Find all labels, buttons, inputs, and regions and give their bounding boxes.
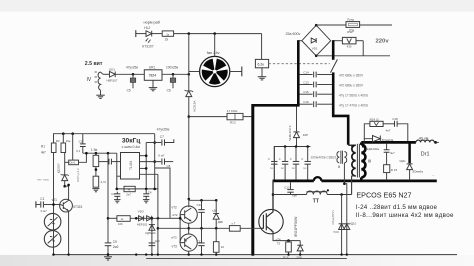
node <box>272 193 275 196</box>
svg-text:Д9Б: Д9Б <box>218 220 223 224</box>
wire <box>261 68 263 77</box>
transformer T1 core <box>356 144 358 178</box>
wire <box>157 174 159 254</box>
wire VT1 collector <box>68 186 70 200</box>
svg-text:IV: IV <box>87 77 92 83</box>
svg-text:С16: С16 <box>303 100 309 104</box>
node <box>132 73 135 76</box>
regulator UR1 7824 <box>144 70 162 81</box>
svg-text:2.5 вит: 2.5 вит <box>85 61 103 67</box>
node <box>107 217 110 220</box>
svg-text:SEML30H 4г: SEML30H 4г <box>288 125 292 141</box>
wire vertical rail <box>188 34 190 91</box>
svg-text:УС9: УС9 <box>333 230 339 234</box>
svg-text:4н7: 4н7 <box>390 151 395 155</box>
sensor B2 <box>44 231 61 248</box>
svg-text:100м400в С8В21: 100м400в С8В21 <box>311 156 337 160</box>
wire collector leg <box>272 181 274 210</box>
svg-text:+Д4: +Д4 <box>212 208 218 212</box>
svg-text:4,7к: 4,7к <box>101 180 107 184</box>
node B <box>213 32 216 35</box>
wire <box>65 161 69 163</box>
capacitor С16 <box>313 101 315 107</box>
wire <box>188 117 190 199</box>
wire control rail <box>54 134 155 143</box>
svg-text:UD1: UD1 <box>109 68 115 72</box>
resistor R17 <box>229 226 240 232</box>
svg-text:R 15: R 15 <box>391 168 398 172</box>
diode VD7 <box>215 200 217 213</box>
node A <box>188 32 191 35</box>
svg-text:2м2: 2м2 <box>113 245 119 249</box>
wire <box>383 123 394 125</box>
svg-text:С11: С11 <box>197 240 203 244</box>
node <box>157 217 160 220</box>
wire <box>317 84 332 86</box>
diode VD9 <box>339 224 345 230</box>
wire <box>240 227 260 229</box>
node sec dot <box>362 145 364 147</box>
terminal X1 <box>135 30 137 37</box>
svg-text:С3: С3 <box>111 192 115 196</box>
wire <box>273 194 307 196</box>
node <box>62 132 65 135</box>
wire <box>386 152 388 164</box>
node <box>188 253 190 255</box>
wire <box>103 73 110 75</box>
wire <box>317 93 332 95</box>
svg-text:IRG4PF50W: IRG4PF50W <box>294 216 298 237</box>
wire VT1 emitter <box>68 211 70 255</box>
wire <box>317 74 332 76</box>
node <box>340 193 343 196</box>
ground <box>143 199 150 201</box>
wire <box>261 34 263 60</box>
bus output minus <box>273 180 314 183</box>
wire <box>356 40 363 42</box>
svg-text:25a 600v: 25a 600v <box>286 32 301 36</box>
wire base link <box>179 215 181 243</box>
wire emitter <box>273 234 300 241</box>
node <box>215 253 217 255</box>
wire <box>79 153 87 162</box>
wire <box>327 194 351 196</box>
capacitor С13 <box>313 82 315 88</box>
diode VD3b <box>147 216 152 221</box>
svg-text:10е: 10е <box>66 139 71 143</box>
sensor B1 <box>44 213 61 230</box>
svg-text:Обед ВРУч: Обед ВРУч <box>331 209 335 224</box>
wire <box>151 218 153 254</box>
transformer T1 secondary <box>361 145 365 178</box>
svg-text:С: С <box>301 157 303 161</box>
winding IV <box>98 72 100 90</box>
IC pin stub <box>140 167 147 169</box>
svg-text:HL2: HL2 <box>144 26 150 30</box>
capacitor C4 <box>145 189 147 194</box>
IC pin stub <box>140 173 158 175</box>
node C <box>188 73 191 76</box>
node <box>71 132 74 135</box>
node <box>67 184 70 187</box>
svg-text:норм раб: норм раб <box>144 20 161 24</box>
wire <box>115 73 144 75</box>
svg-text:100: 100 <box>118 222 123 226</box>
node <box>295 145 298 148</box>
node prim dot <box>351 145 353 147</box>
transistor VT3 <box>180 234 197 251</box>
terminal <box>241 67 243 77</box>
svg-text:R1: R1 <box>41 145 45 149</box>
svg-text:нет тока: нет тока <box>37 178 49 182</box>
wire <box>188 97 190 117</box>
IC pin stub <box>140 155 147 157</box>
svg-text:47у 17 560U x 400U: 47у 17 560U x 400U <box>339 93 369 97</box>
wire <box>108 217 117 219</box>
svg-text:С15: С15 <box>303 90 309 94</box>
node <box>107 152 110 155</box>
wire sec bottom <box>360 177 363 181</box>
svg-text:С5: С5 <box>127 89 131 93</box>
svg-text:4к7: 4к7 <box>41 150 46 154</box>
svg-text:fan 24v: fan 24v <box>207 50 220 55</box>
resistor R14 <box>370 121 383 126</box>
svg-text:УД8: УД8 <box>296 256 302 260</box>
bus thick horiz <box>252 104 300 107</box>
resistor R5 <box>124 186 135 191</box>
svg-text:vТ3: vТ3 <box>172 245 178 249</box>
capacitor C6 <box>172 74 174 78</box>
fan M1 <box>200 56 230 86</box>
svg-text:КТ3107: КТ3107 <box>142 45 153 49</box>
wire <box>188 199 190 207</box>
wire AC line top <box>316 24 346 26</box>
svg-text:vТ1: vТ1 <box>52 198 58 202</box>
current transformer TT core <box>307 191 328 193</box>
svg-text:НЕR107: НЕR107 <box>107 79 118 83</box>
svg-text:II: II <box>338 164 340 169</box>
bus thick corner <box>333 116 348 145</box>
node <box>153 188 156 191</box>
transistor VT2 <box>180 206 197 223</box>
wire sec top <box>360 142 363 145</box>
svg-text:47у 17 470U x 400U: 47у 17 470U x 400U <box>339 103 369 107</box>
switch S1 blade <box>331 59 338 72</box>
svg-text:6.2к: 6.2к <box>258 63 265 67</box>
svg-text:0 м7: 0 м7 <box>158 154 165 158</box>
wire fan right <box>230 71 242 73</box>
node <box>145 154 148 157</box>
node <box>95 168 98 171</box>
node <box>145 167 148 170</box>
svg-text:1м: 1м <box>292 167 295 170</box>
wire bases <box>170 217 180 219</box>
wire y228 <box>158 227 230 229</box>
wire <box>351 176 353 194</box>
wire <box>146 142 161 144</box>
capacitor C3 <box>116 192 118 194</box>
wire <box>352 176 356 195</box>
node <box>145 253 147 255</box>
node <box>179 217 182 220</box>
wire <box>343 163 345 184</box>
svg-text:1м: 1м <box>281 167 284 170</box>
wire <box>152 80 154 87</box>
node <box>107 253 109 255</box>
wire AC line bottom <box>316 55 390 57</box>
resistor R4 <box>93 176 99 187</box>
svg-text:68н: 68н <box>292 193 297 197</box>
node <box>200 227 203 230</box>
node <box>107 253 110 256</box>
optocoupler U2 <box>69 160 79 165</box>
node <box>52 203 55 206</box>
svg-text:470 680u x 350V: 470 680u x 350V <box>339 84 364 88</box>
svg-text:НЕР102: НЕР102 <box>137 222 148 226</box>
capacitor C1 <box>35 201 37 207</box>
svg-text:430: 430 <box>347 45 352 49</box>
winding II left <box>337 152 339 163</box>
svg-text:470 680u x 350V: 470 680u x 350V <box>339 74 364 78</box>
node D <box>188 115 191 118</box>
zener VD KS515 <box>186 91 192 97</box>
svg-text:10: 10 <box>221 245 225 249</box>
bus bottom second <box>146 257 347 259</box>
wire <box>300 74 313 76</box>
svg-text:С12: С12 <box>284 186 290 190</box>
wire vert <box>116 153 118 189</box>
wire fan top <box>214 34 216 57</box>
wire y200 <box>189 199 216 201</box>
IC U1 TL494 <box>121 153 140 180</box>
node <box>172 73 175 76</box>
node F <box>343 182 346 185</box>
svg-text:вТ2: вТ2 <box>173 213 178 217</box>
capacitor C12 <box>290 182 292 189</box>
wire L bend <box>155 168 170 218</box>
wire <box>341 195 343 255</box>
capacitor C9 <box>105 242 112 244</box>
resistor R15 <box>384 165 390 173</box>
node <box>187 227 190 230</box>
diode VD10 <box>344 224 350 230</box>
resistor R3 <box>93 155 99 166</box>
capacitor С19 <box>284 147 286 162</box>
svg-text:С18: С18 <box>392 117 398 121</box>
node <box>157 227 160 230</box>
zener VD4 <box>62 175 68 181</box>
wire <box>140 161 162 163</box>
capacitor С21 <box>307 147 309 162</box>
svg-text:ТТ: ТТ <box>313 199 319 205</box>
svg-text:вТ3: вТ3 <box>172 235 177 239</box>
resistor R1 <box>51 143 56 153</box>
transistor VT4 IGBT <box>259 209 283 233</box>
capacitor C11 <box>201 228 203 243</box>
wire <box>274 147 310 180</box>
capacitor C20 <box>99 161 108 163</box>
svg-text:КС515А: КС515А <box>193 101 197 112</box>
capacitor C5 <box>132 74 134 78</box>
node <box>252 253 254 255</box>
wire <box>436 141 439 143</box>
bus thick right upper <box>332 40 335 60</box>
svg-text:УД11: УД11 <box>399 159 406 163</box>
svg-text:с шим 0.4м: с шим 0.4м <box>122 145 141 149</box>
ground <box>114 199 121 201</box>
wire <box>348 144 356 146</box>
wire <box>162 73 189 75</box>
node <box>215 199 218 202</box>
svg-text:7824: 7824 <box>149 74 157 78</box>
svg-text:R16: R16 <box>283 256 289 260</box>
node <box>287 253 289 255</box>
wire <box>344 184 346 255</box>
wire <box>300 93 313 95</box>
current transformer TT winding <box>307 191 328 194</box>
diode VD8 <box>299 241 301 245</box>
node bridge top <box>315 24 318 27</box>
node <box>151 217 154 220</box>
wire <box>152 33 162 35</box>
svg-text:С4: С4 <box>148 190 152 194</box>
winding IV ticks <box>95 72 97 82</box>
LED HL2 <box>146 31 152 37</box>
svg-text:КД2130а: КД2130а <box>367 147 379 151</box>
winding II right <box>344 152 346 163</box>
svg-text:к Т: к Т <box>232 221 236 225</box>
wire AC line top right <box>360 24 392 26</box>
wire <box>95 167 97 177</box>
capacitor С15 <box>313 91 315 97</box>
wire <box>243 116 252 118</box>
node <box>340 253 342 255</box>
inductor Dr1 <box>416 140 434 142</box>
svg-text:47ух25в: 47ух25в <box>126 66 138 70</box>
node <box>346 253 348 255</box>
node <box>153 141 156 144</box>
IC pin stub <box>117 175 121 177</box>
wire rail 15v <box>83 152 117 154</box>
node bridge bottom <box>315 55 318 58</box>
svg-text:С1: С1 <box>40 197 44 201</box>
wire <box>386 173 388 181</box>
bus thick right lower <box>332 72 335 117</box>
capacitor C17 <box>384 149 390 151</box>
capacitor C7 <box>161 139 163 145</box>
svg-text:47ух25м: 47ух25м <box>157 128 169 132</box>
svg-text:1м: 1м <box>303 167 306 170</box>
capacitor С20 <box>295 147 297 162</box>
wire <box>64 181 66 187</box>
bus bottom main <box>52 254 457 256</box>
svg-text:40 uH: 40 uH <box>419 137 429 141</box>
wire bridge left stub <box>297 40 302 42</box>
capacitor С18 <box>273 147 275 162</box>
bus freewheel drop <box>408 142 411 163</box>
diode UD1 <box>110 71 116 77</box>
node <box>63 185 66 188</box>
wire <box>296 107 298 132</box>
wire <box>130 217 170 219</box>
diode VD5 <box>294 132 300 138</box>
node <box>116 188 119 191</box>
wire <box>296 138 298 147</box>
wire <box>100 90 102 95</box>
transistor VT1 <box>60 199 73 212</box>
varistor R12 <box>342 37 356 44</box>
diode VD3 <box>139 216 144 221</box>
node <box>299 253 301 255</box>
bus sec thick top <box>361 141 416 144</box>
svg-text:С: С <box>268 157 270 161</box>
svg-text:С9: С9 <box>113 240 117 244</box>
bus thick down <box>251 104 254 256</box>
bus thick left <box>297 40 300 105</box>
svg-text:КД202У: КД202У <box>57 163 61 173</box>
wire <box>317 103 332 105</box>
node <box>145 188 148 191</box>
node <box>153 160 156 163</box>
wire <box>136 33 146 35</box>
node <box>135 253 137 255</box>
capacitor C18 <box>394 121 396 127</box>
svg-text:УД10: УД10 <box>350 222 357 226</box>
wire <box>409 170 411 181</box>
svg-text:Dr1: Dr1 <box>421 151 430 157</box>
ground <box>104 257 112 260</box>
wire zener branch <box>64 153 66 175</box>
svg-text:R2: R2 <box>56 139 60 143</box>
svg-text:КТ315: КТ315 <box>73 205 82 209</box>
transformer T2 core <box>340 151 342 164</box>
wire left rail <box>53 153 55 255</box>
wire <box>364 124 370 139</box>
node <box>67 253 69 255</box>
svg-text:1м0: 1м0 <box>155 239 160 243</box>
svg-text:I-24 ..28вит d1.5 мм вдвое: I-24 ..28вит d1.5 мм вдвое <box>356 204 438 211</box>
diode VD11 <box>407 164 413 170</box>
svg-text:III: III <box>368 158 372 163</box>
svg-text:VD3: VD3 <box>138 209 144 213</box>
wire vert c-column <box>154 134 156 189</box>
ground <box>149 87 158 89</box>
wire <box>174 33 262 35</box>
wire <box>300 103 313 105</box>
wire <box>333 40 342 42</box>
svg-text:220v: 220v <box>376 39 390 45</box>
svg-text:Т5: Т5 <box>277 241 281 245</box>
resistor R16 <box>288 241 290 242</box>
diode VD12 <box>373 136 381 142</box>
svg-text:С: С <box>290 157 292 161</box>
wire <box>72 134 74 160</box>
resistor R8 2k <box>162 31 173 36</box>
svg-text:2к7: 2к7 <box>126 193 131 197</box>
svg-text:С6: С6 <box>167 89 171 93</box>
node <box>200 199 203 202</box>
ground <box>92 188 99 190</box>
svg-text:С7: С7 <box>160 135 164 139</box>
capacitor C2 <box>82 134 84 144</box>
transformer T1 primary <box>352 145 356 176</box>
svg-text:R13: R13 <box>230 121 236 125</box>
top gray band <box>0 0 474 12</box>
wire <box>107 153 109 242</box>
svg-text:КД522А: КД522А <box>145 231 155 235</box>
svg-text:EPCOS E65 N27: EPCOS E65 N27 <box>356 191 411 200</box>
node <box>200 253 202 255</box>
